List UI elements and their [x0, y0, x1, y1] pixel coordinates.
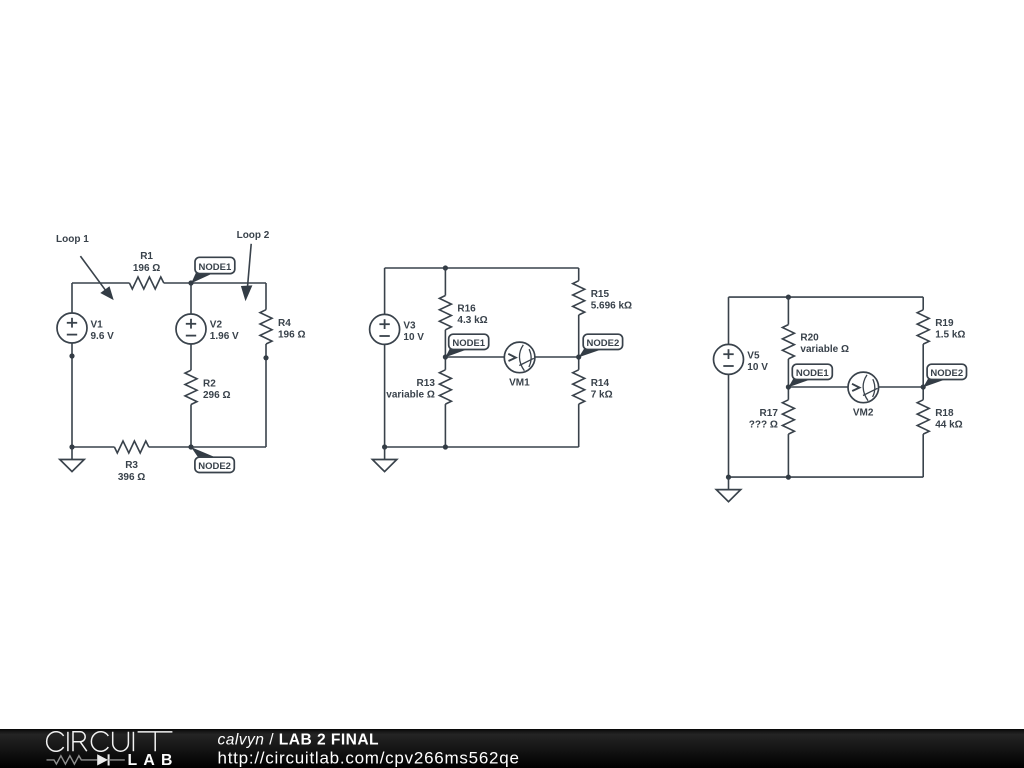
svg-text:VM2: VM2: [853, 408, 874, 419]
node NODE1 c3: [786, 364, 832, 389]
wire c3 right-lower: [922, 434, 924, 477]
svg-text:NODE2: NODE2: [930, 368, 963, 379]
resistor R14: [573, 370, 613, 404]
node NODE2 c3: [921, 364, 967, 389]
wire c3 top: [729, 296, 924, 298]
wire c2 right-lower: [578, 404, 580, 447]
wire c3 mid R20-NODE1: [787, 359, 789, 387]
resistor R3: [114, 441, 148, 483]
svg-text:NODE1: NODE1: [452, 338, 485, 349]
wire c2 NODE1-R13: [444, 357, 446, 370]
footer title calvyn / LAB 2 FINAL: [218, 732, 380, 749]
wire c1 bottom-right: [149, 446, 266, 448]
svg-text:NODE2: NODE2: [198, 461, 231, 472]
wire c3 mid-lower: [787, 434, 789, 477]
svg-text:R1: R1: [140, 251, 153, 262]
node NODE2 c2: [576, 334, 623, 359]
svg-text:4.3 kΩ: 4.3 kΩ: [457, 315, 487, 326]
svg-text:9.6 V: 9.6 V: [91, 331, 115, 342]
junction below R4: [263, 355, 268, 360]
svg-text:10 V: 10 V: [403, 332, 424, 343]
resistor R4: [260, 310, 305, 344]
junction c2 top: [443, 265, 448, 270]
svg-text:R19: R19: [935, 318, 954, 329]
resistor R20: [782, 325, 849, 359]
voltage source V2: [176, 314, 239, 344]
wire c2 right R15-NODE2: [578, 315, 580, 370]
wire VM1-NODE2: [535, 356, 579, 358]
svg-text:http://circuitlab.com/cpv266ms: http://circuitlab.com/cpv266ms562qe: [218, 749, 520, 768]
footer bar: [0, 729, 1024, 768]
junction c3 top: [786, 295, 791, 300]
voltage source V5: [714, 344, 769, 374]
label Loop 2: [237, 230, 270, 241]
wire c1 left-lower: [71, 343, 73, 447]
wire c3 left-upper: [728, 297, 730, 344]
wire c2 mid-upper: [444, 268, 446, 296]
node NODE1 c2: [443, 334, 489, 359]
svg-text:44 kΩ: 44 kΩ: [935, 419, 962, 430]
wire c1 mid-lower: [190, 405, 192, 448]
ground c3: [716, 477, 740, 501]
svg-text:R4: R4: [278, 318, 291, 329]
wire c3 NODE1-R17: [787, 387, 789, 400]
resistor R15: [573, 281, 632, 315]
resistor R16: [439, 296, 487, 330]
wire c3 mid-upper: [787, 297, 789, 325]
wire c2 bottom: [385, 446, 579, 448]
Loop 2 arrow: [241, 244, 253, 301]
junction below V1: [69, 353, 74, 358]
wire VM2-NODE2: [879, 386, 924, 388]
resistor R1: [129, 251, 163, 289]
wire NODE1-VM1: [445, 356, 504, 358]
CircuitLab logo CIRCUIT: [47, 732, 173, 752]
svg-text:V1: V1: [91, 320, 104, 331]
svg-text:R17: R17: [760, 408, 779, 419]
node NODE2 c1: [188, 444, 234, 472]
wire c1 mid V2-R2: [190, 344, 192, 370]
svg-text:LAB: LAB: [128, 752, 179, 768]
wire c3 right R19-NODE2: [922, 344, 924, 400]
wire c3 right-upper: [922, 297, 924, 310]
resistor R18: [917, 400, 962, 434]
svg-text:196 Ω: 196 Ω: [133, 263, 160, 274]
svg-text:NODE1: NODE1: [199, 262, 232, 273]
CircuitLab logo LAB: [128, 752, 179, 768]
ground c2: [372, 447, 396, 471]
svg-text:R20: R20: [800, 333, 819, 344]
svg-text:5.696 kΩ: 5.696 kΩ: [591, 300, 632, 311]
svg-text:R16: R16: [457, 304, 476, 315]
resistor R13: [386, 370, 451, 404]
svg-text:Loop 2: Loop 2: [237, 230, 270, 241]
svg-text:V5: V5: [747, 350, 760, 361]
resistor R2: [185, 370, 230, 404]
svg-text:calvyn / LAB 2 FINAL: calvyn / LAB 2 FINAL: [218, 732, 380, 749]
svg-text:R3: R3: [125, 460, 138, 471]
junction c3 bottom-left: [726, 475, 731, 480]
junction c2 bottom-left: [382, 444, 387, 449]
wire c1 right-upper: [265, 283, 267, 310]
svg-text:R15: R15: [591, 289, 610, 300]
CircuitLab logo squiggle-diode: [47, 754, 125, 765]
svg-text:R13: R13: [417, 378, 436, 389]
svg-text:variable Ω: variable Ω: [800, 344, 849, 355]
junction c2 bottom-mid: [443, 444, 448, 449]
wire c2 top: [385, 267, 579, 269]
voltage source V1: [57, 313, 114, 343]
Loop 1 arrow: [80, 256, 113, 300]
label Loop 1: [56, 234, 89, 245]
svg-text:V2: V2: [210, 320, 223, 331]
svg-text:296 Ω: 296 Ω: [203, 390, 230, 401]
wire c1 top-right: [164, 282, 266, 284]
svg-text:10 V: 10 V: [747, 362, 768, 373]
svg-text:variable Ω: variable Ω: [386, 389, 435, 400]
footer url: [218, 749, 520, 768]
node NODE1 c1: [188, 257, 234, 285]
svg-text:396 Ω: 396 Ω: [118, 472, 145, 483]
svg-text:R18: R18: [935, 408, 954, 419]
wire c3 left-lower: [728, 374, 730, 477]
ground c1: [60, 447, 84, 471]
svg-text:Loop 1: Loop 1: [56, 234, 89, 245]
wire c1 bottom-left: [72, 446, 114, 448]
svg-text:NODE2: NODE2: [587, 338, 620, 349]
svg-text:1.96 V: 1.96 V: [210, 331, 239, 342]
voltage source V3: [370, 314, 425, 344]
wire c1 right-lower: [265, 344, 267, 447]
wire c2 left-lower: [384, 344, 386, 447]
svg-text:VM1: VM1: [509, 378, 530, 389]
wire c2 right-upper: [578, 268, 580, 281]
resistor R17: [749, 400, 795, 434]
resistor R19: [917, 310, 965, 344]
svg-text:R2: R2: [203, 378, 216, 389]
svg-text:R14: R14: [591, 378, 610, 389]
wire c1 mid-upper: [190, 283, 192, 314]
svg-text:1.5 kΩ: 1.5 kΩ: [935, 329, 965, 340]
svg-text:V3: V3: [403, 320, 416, 331]
svg-text:7 kΩ: 7 kΩ: [591, 389, 613, 400]
svg-text:??? Ω: ??? Ω: [749, 419, 778, 430]
junction c1 bottom-left corner: [69, 444, 74, 449]
svg-text:NODE1: NODE1: [796, 368, 829, 379]
wire c1 top-left: [72, 282, 129, 284]
wire c3 bottom: [729, 476, 924, 478]
wire NODE1-VM2: [788, 386, 848, 388]
wire c2 mid R16-NODE1: [444, 330, 446, 357]
wire c1 left-upper: [71, 283, 73, 313]
voltmeter VM2: [848, 372, 879, 419]
svg-text:196 Ω: 196 Ω: [278, 330, 305, 341]
voltmeter VM1: [504, 342, 535, 389]
wire c2 left-upper: [384, 268, 386, 314]
wire c2 mid-lower: [444, 404, 446, 447]
junction c3 bottom-mid: [786, 475, 791, 480]
